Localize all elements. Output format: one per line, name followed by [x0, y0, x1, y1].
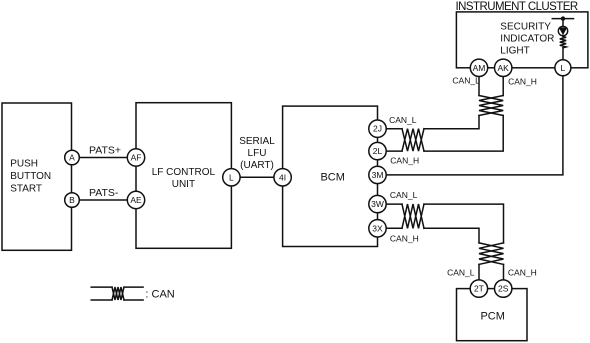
svg-text:L: L	[229, 172, 234, 182]
svg-text:LIGHT: LIGHT	[500, 46, 529, 57]
svg-text:3M: 3M	[372, 170, 384, 180]
connector A	[65, 150, 80, 165]
resistor below LED	[560, 37, 566, 48]
wire CAN_H from twist to drop corner	[424, 228, 479, 243]
svg-text:CAN_L: CAN_L	[389, 115, 417, 125]
svg-text:LF CONTROL: LF CONTROL	[152, 167, 216, 178]
svg-text:2L: 2L	[373, 146, 383, 156]
wire CAN_L from twist to drop corner	[424, 204, 504, 243]
connector 3W	[369, 195, 386, 212]
junction dot on power rail	[561, 16, 565, 20]
wire CAN_H from twist to riser corner	[424, 116, 503, 152]
wire CAN_L from twist to riser corner	[424, 116, 479, 129]
wire to 2S connector	[503, 264, 505, 280]
wire CAN_L from 2J to twisted pair	[386, 128, 402, 130]
connector 2L	[369, 142, 386, 159]
power rail above security indicator light	[552, 18, 573, 20]
connector 4I	[274, 169, 291, 186]
wire PATS+ (A to AF)	[79, 157, 128, 159]
svg-text:CAN_H: CAN_H	[390, 233, 419, 243]
connector 3X	[369, 220, 386, 237]
svg-text:SECURITY: SECURITY	[500, 22, 551, 33]
svg-text:4I: 4I	[279, 172, 286, 182]
twisted pair BCM to PCM, vertical section	[479, 243, 504, 265]
wire CAN_H from 2L to twisted pair	[386, 150, 402, 152]
svg-text:2T: 2T	[474, 284, 484, 294]
box: LF CONTROL UNIT module	[136, 103, 231, 249]
twisted pair BCM to cluster, vertical section	[479, 96, 503, 116]
svg-text:2J: 2J	[373, 124, 382, 134]
svg-text:PUSH: PUSH	[10, 159, 38, 170]
svg-text:CAN_H: CAN_H	[390, 156, 419, 166]
svg-text:CAN_L: CAN_L	[390, 190, 418, 200]
svg-text:PATS-: PATS-	[89, 187, 119, 199]
connector L of instrument cluster	[555, 60, 571, 76]
svg-text:CAN_L: CAN_L	[452, 76, 480, 86]
svg-text:3X: 3X	[372, 223, 383, 233]
box: INSTRUMENT CLUSTER module	[456, 12, 588, 68]
svg-text:AF: AF	[131, 153, 142, 163]
wire CAN_H from 3X to twisted pair	[386, 227, 402, 229]
connector pin letters	[69, 63, 565, 294]
wire CAN_L from 3W to twisted pair	[386, 203, 402, 205]
box: BCM module	[283, 106, 378, 246]
svg-text:B: B	[69, 195, 75, 205]
connector 2T	[470, 280, 487, 297]
svg-text:CAN_H: CAN_H	[508, 77, 537, 87]
wire resistor to L connector	[562, 48, 564, 60]
svg-text:LFU: LFU	[248, 148, 267, 159]
svg-text:SERIAL: SERIAL	[239, 136, 275, 147]
svg-text:INSTRUMENT CLUSTER: INSTRUMENT CLUSTER	[456, 1, 578, 13]
box: PUSH BUTTON START module	[2, 103, 72, 250]
legend twisted pair symbol	[91, 286, 112, 288]
connector AK	[495, 59, 512, 76]
svg-text:(UART): (UART)	[240, 160, 274, 171]
svg-text:CAN_H: CAN_H	[508, 268, 537, 278]
connector 2J	[369, 120, 386, 137]
connector L of LF control unit	[223, 169, 240, 186]
svg-text:AK: AK	[498, 63, 510, 73]
box: PCM module	[457, 289, 528, 341]
wire 3M to cluster L connector	[386, 77, 563, 175]
svg-text:PATS+: PATS+	[89, 145, 121, 157]
svg-text:AE: AE	[130, 195, 142, 205]
wire PATS- (B to AE)	[79, 199, 128, 201]
wire rail to LED	[562, 19, 564, 27]
svg-text:UNIT: UNIT	[172, 179, 195, 190]
svg-text:A: A	[69, 153, 75, 163]
connector AE	[127, 191, 144, 208]
svg-text:AM: AM	[473, 63, 486, 73]
svg-text:CAN_L: CAN_L	[447, 268, 475, 278]
connector 2S	[495, 280, 512, 297]
connector AF	[127, 149, 144, 166]
svg-text:: CAN: : CAN	[145, 288, 174, 300]
svg-text:START: START	[10, 184, 42, 195]
connector 3M	[369, 166, 386, 183]
svg-text:PCM: PCM	[480, 311, 504, 323]
svg-text:INDICATOR: INDICATOR	[500, 33, 554, 44]
connector AM	[470, 59, 487, 76]
LED triangle	[559, 27, 568, 35]
svg-text:BCM: BCM	[320, 172, 344, 184]
LED security indicator light symbol	[558, 26, 567, 35]
svg-text:2S: 2S	[498, 284, 509, 294]
twisted pair BCM to PCM, horizontal section	[402, 204, 424, 228]
twisted pair BCM to cluster, horizontal section	[402, 129, 424, 151]
svg-text:3W: 3W	[371, 199, 384, 209]
svg-text:L: L	[561, 63, 566, 73]
wire to AM connector	[478, 77, 480, 96]
wire to 2T connector	[478, 264, 480, 280]
wire LED to resistor	[562, 35, 564, 38]
wire to AK connector	[502, 77, 504, 96]
wire SERIAL LFU UART (L to 4I)	[240, 176, 275, 178]
svg-text:BUTTON: BUTTON	[10, 171, 51, 182]
connector B	[65, 193, 80, 208]
